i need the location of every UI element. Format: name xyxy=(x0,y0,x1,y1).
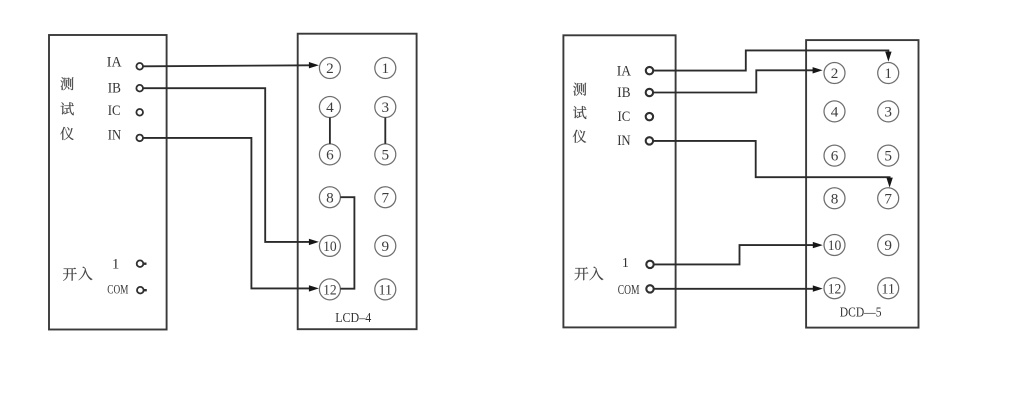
svg-text:IA: IA xyxy=(107,55,122,71)
svg-text:IC: IC xyxy=(108,103,121,119)
svg-text:DCD—5: DCD—5 xyxy=(840,306,882,321)
pin 6 (LCD-4) xyxy=(319,144,340,165)
svg-text:2: 2 xyxy=(326,60,334,77)
svg-text:6: 6 xyxy=(326,147,334,164)
pin 4 (DCD-5) xyxy=(824,101,845,122)
svg-text:1: 1 xyxy=(622,256,629,271)
pin 3 (LCD-4) xyxy=(375,97,396,118)
svg-text:9: 9 xyxy=(382,238,390,255)
jumper pin4-pin6 xyxy=(329,118,331,144)
svg-text:2: 2 xyxy=(831,65,839,82)
pin 9 (LCD-4) xyxy=(375,235,396,256)
svg-text:7: 7 xyxy=(884,190,892,207)
terminal IB (right) xyxy=(646,89,653,96)
svg-text:3: 3 xyxy=(884,104,892,121)
svg-text:10: 10 xyxy=(323,238,337,255)
pin 9 (DCD-5) xyxy=(878,235,899,256)
svg-text:11: 11 xyxy=(881,280,895,297)
label 开入 (right tester) xyxy=(575,267,604,281)
pin 8 (DCD-5) xyxy=(824,188,845,209)
pin 2 (DCD-5) xyxy=(824,63,845,84)
svg-text:4: 4 xyxy=(326,99,334,116)
svg-text:6: 6 xyxy=(831,148,839,165)
pin 1 (LCD-4) xyxy=(375,58,396,79)
wire IN to pin 12 xyxy=(143,138,319,292)
svg-text:COM: COM xyxy=(618,283,640,298)
wire 1 to pin 10 xyxy=(655,242,823,265)
terminal IN (right) xyxy=(646,137,653,144)
pin 1 (DCD-5) xyxy=(878,63,899,84)
pin 5 (LCD-4) xyxy=(375,144,396,165)
jumper pin8-pin12 xyxy=(340,197,354,289)
svg-text:8: 8 xyxy=(326,189,334,206)
vertical label 测试仪 (left tester) xyxy=(60,77,74,140)
svg-text:5: 5 xyxy=(884,148,892,165)
wire IB to pin 10 xyxy=(143,88,319,245)
terminal IN (left) xyxy=(136,135,143,142)
svg-text:1: 1 xyxy=(884,65,892,82)
terminal IA (left) xyxy=(136,63,143,70)
terminal 1 (left) xyxy=(137,260,147,267)
pin 12 (DCD-5) xyxy=(824,278,845,299)
svg-text:10: 10 xyxy=(828,237,842,254)
wire IB to pin 2 xyxy=(653,67,822,92)
relay box LCD-4 xyxy=(298,34,417,330)
terminal IB (left) xyxy=(136,85,143,92)
terminal COM (right) xyxy=(646,285,653,292)
svg-text:7: 7 xyxy=(382,189,390,206)
relay box DCD-5 xyxy=(806,40,918,328)
pin 7 (LCD-4) xyxy=(375,187,396,208)
svg-text:8: 8 xyxy=(831,190,839,207)
pin 3 (DCD-5) xyxy=(878,101,899,122)
svg-text:11: 11 xyxy=(379,282,393,299)
wire IA to pin 2 xyxy=(143,62,319,68)
jumper pin3-pin5 xyxy=(384,118,386,144)
label 开入 (left tester) xyxy=(63,267,92,281)
svg-text:COM: COM xyxy=(107,282,129,297)
terminal COM (left) xyxy=(137,287,147,294)
pin 8 (LCD-4) xyxy=(319,187,340,208)
svg-text:IA: IA xyxy=(617,63,632,79)
pin 11 (DCD-5) xyxy=(878,278,899,299)
wire IN to pin 7 xyxy=(653,141,893,188)
terminal IC (right) xyxy=(646,113,653,120)
pin 5 (DCD-5) xyxy=(878,145,899,166)
svg-text:5: 5 xyxy=(382,147,390,164)
pin 7 (DCD-5) xyxy=(878,188,899,209)
terminal IA (right) xyxy=(646,67,653,74)
pin 2 (LCD-4) xyxy=(319,58,340,79)
svg-text:IB: IB xyxy=(617,85,630,101)
svg-text:IC: IC xyxy=(618,109,631,125)
wire COM to pin 12 xyxy=(655,285,823,291)
pin 10 (LCD-4) xyxy=(319,235,340,256)
svg-text:IB: IB xyxy=(108,81,121,97)
svg-text:1: 1 xyxy=(112,256,120,272)
pin 4 (LCD-4) xyxy=(319,97,340,118)
pin 10 (DCD-5) xyxy=(824,235,845,256)
svg-text:3: 3 xyxy=(382,99,390,116)
pin 12 (LCD-4) xyxy=(319,279,340,300)
tester box right xyxy=(563,35,675,327)
svg-text:9: 9 xyxy=(884,237,892,254)
tester box left xyxy=(49,35,167,330)
wire IA to pin 1 xyxy=(653,50,891,70)
svg-text:IN: IN xyxy=(617,133,631,149)
pin 11 (LCD-4) xyxy=(375,279,396,300)
svg-text:IN: IN xyxy=(108,127,122,143)
pin 6 (DCD-5) xyxy=(824,145,845,166)
svg-text:LCD–4: LCD–4 xyxy=(335,310,371,325)
vertical label 测试仪 (right tester) xyxy=(573,83,587,143)
svg-text:1: 1 xyxy=(382,60,390,77)
terminal IC (left) xyxy=(136,109,143,116)
svg-text:4: 4 xyxy=(831,104,839,121)
terminal 1 (right) xyxy=(646,261,653,268)
svg-text:12: 12 xyxy=(828,280,842,297)
svg-text:12: 12 xyxy=(323,282,337,299)
